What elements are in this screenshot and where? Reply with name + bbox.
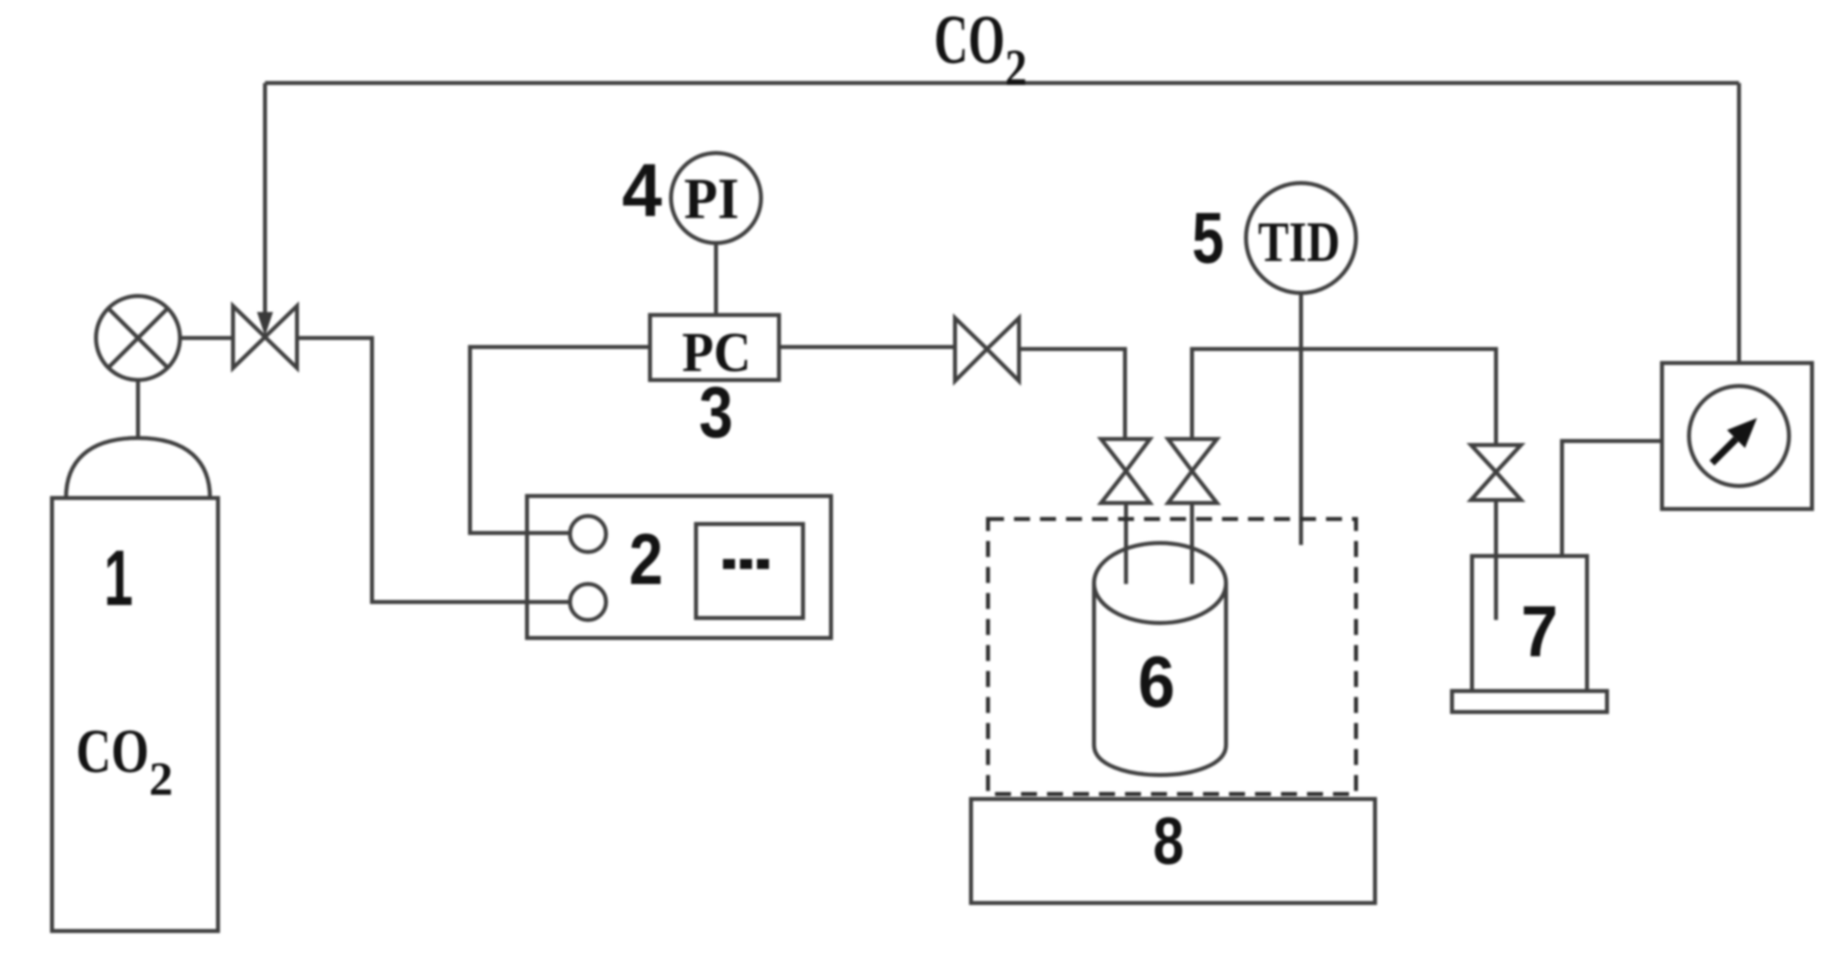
svg-text:7: 7 xyxy=(1521,592,1558,672)
pump box 2 xyxy=(527,496,831,638)
dip tube from valve V4 into reactor xyxy=(1190,503,1194,584)
pump display panel xyxy=(696,524,803,618)
wire: valve V2 to riser of valve V3 xyxy=(1019,349,1125,440)
wire: PI gauge to PC controller xyxy=(714,243,718,315)
reactor 6 top ellipse xyxy=(1094,543,1226,623)
pump upper port xyxy=(570,516,606,552)
svg-text:2: 2 xyxy=(629,520,663,600)
wire: left riser from header down to valve V1 xyxy=(263,83,267,316)
wire: PC controller to pump upper inlet xyxy=(470,347,652,533)
heater-stirrer box 8 xyxy=(971,799,1375,903)
flow arrowhead into valve V1 xyxy=(257,312,273,336)
valve V1 (shut-off valve at cylinder) xyxy=(233,306,297,368)
svg-text:1: 1 xyxy=(104,533,133,622)
gauge needle xyxy=(1712,439,1736,463)
svg-text:8: 8 xyxy=(1153,804,1184,879)
wire: PC to valve V2 xyxy=(779,345,955,349)
wire stub to lower port xyxy=(527,600,571,604)
svg-text:2: 2 xyxy=(1005,40,1027,97)
valve V4 (reactor outlet valve) xyxy=(1168,439,1217,503)
gauge needle arrowhead xyxy=(1727,418,1757,448)
dip tube inside separator 7 xyxy=(1494,556,1498,620)
svg-text:TID: TID xyxy=(1258,211,1340,274)
svg-text:4: 4 xyxy=(622,148,662,232)
reactor 6 body xyxy=(1094,583,1226,775)
wire stub to upper port xyxy=(527,531,571,535)
pump lower port xyxy=(570,584,606,620)
thermocouple stem into bath xyxy=(1299,293,1303,545)
svg-text:PI: PI xyxy=(684,166,739,231)
gauge dial circle xyxy=(1689,386,1789,486)
wire: right riser from header to gauge box xyxy=(1737,83,1741,363)
svg-text:CO: CO xyxy=(76,718,149,786)
svg-text:6: 6 xyxy=(1138,643,1175,723)
svg-text:2: 2 xyxy=(149,753,173,806)
controller PC box xyxy=(650,315,779,380)
cylinder dome xyxy=(66,438,210,498)
thermostatic bath dashed enclosure xyxy=(988,519,1356,794)
wire: top CO2 header line xyxy=(265,81,1739,85)
valve V5 (separator inlet valve) xyxy=(1471,445,1521,500)
gauge TID (temperature indicator) circle xyxy=(1246,183,1356,293)
wire: valve V5 into separator 7 xyxy=(1494,500,1498,620)
CO2 cylinder 1 body xyxy=(52,498,218,931)
wire: regulator to valve V1 xyxy=(180,336,233,340)
svg-text:3: 3 xyxy=(699,373,733,453)
wire: branch over reactor to valve V5 xyxy=(1192,349,1496,445)
regulator on cylinder (circle with X) xyxy=(96,296,180,380)
valve V3 (reactor inlet valve) xyxy=(1101,439,1150,503)
wire: separator 7 to vacuum gauge box xyxy=(1562,441,1662,556)
gauge PI (pressure indicator) circle xyxy=(671,153,761,243)
separator vessel 7 xyxy=(1472,556,1587,691)
wire: valve V1 to pump lower inlet xyxy=(297,338,570,602)
cylinder stem xyxy=(136,380,140,440)
separator base plate xyxy=(1452,691,1607,712)
reactor dip tube ends xyxy=(1126,545,1192,584)
valve V2 (line valve) xyxy=(955,318,1019,381)
svg-text:5: 5 xyxy=(1192,199,1224,279)
display dashes xyxy=(723,559,769,569)
vacuum gauge box xyxy=(1662,363,1812,509)
svg-text:CO: CO xyxy=(934,2,1005,79)
dip tube from valve V3 into reactor xyxy=(1124,503,1128,584)
